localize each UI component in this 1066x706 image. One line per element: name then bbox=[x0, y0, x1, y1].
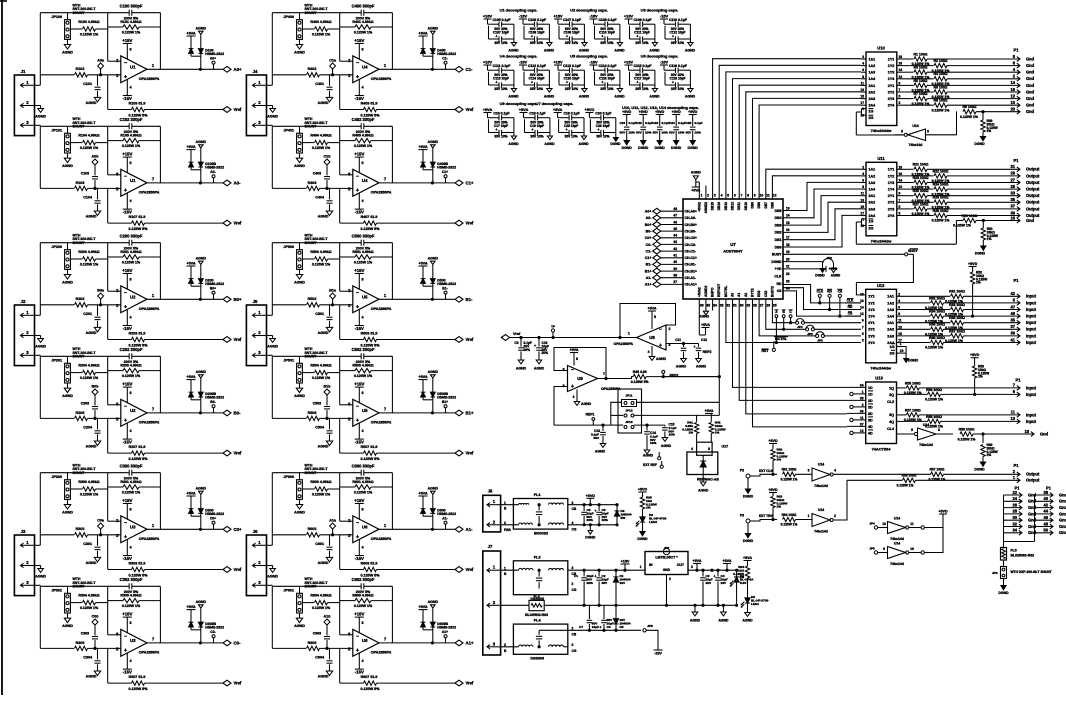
jumper JP201 bbox=[51, 347, 96, 383]
op-amp U6 bbox=[348, 629, 392, 656]
U7 left pins with input diamonds bbox=[645, 207, 697, 287]
svg-text:2: 2 bbox=[493, 600, 496, 605]
svg-text:AGND: AGND bbox=[62, 624, 73, 628]
svg-text:A1+: A1+ bbox=[442, 630, 448, 634]
svg-text:FL5: FL5 bbox=[1011, 549, 1017, 553]
resistor R103 61.9 to Vref bbox=[108, 75, 223, 118]
svg-text:Gnd: Gnd bbox=[1040, 431, 1049, 436]
connector J2 bbox=[14, 299, 34, 366]
svg-text:+5VA: +5VA bbox=[691, 189, 700, 193]
svg-text:BUSY: BUSY bbox=[772, 253, 782, 257]
svg-text:CH.B0+: CH.B0+ bbox=[685, 223, 697, 227]
resistor R401 4.99k feedback bbox=[352, 16, 373, 34]
svg-text:0.125W 1%: 0.125W 1% bbox=[122, 490, 141, 494]
svg-text:31: 31 bbox=[1010, 164, 1015, 169]
ground AGND J2 pin2 bbox=[35, 336, 47, 349]
svg-text:1Y3: 1Y3 bbox=[868, 308, 875, 312]
resistor R407 61.9 to Vref bbox=[340, 188, 455, 231]
svg-text:R2 100Ω: R2 100Ω bbox=[934, 59, 948, 63]
svg-text:R8 100Ω: R8 100Ω bbox=[934, 99, 948, 103]
svg-text:35V 10%: 35V 10% bbox=[530, 87, 543, 91]
row9 resistor R29 to P1 Gnd bbox=[953, 214, 1035, 228]
svg-text:J1: J1 bbox=[21, 69, 26, 74]
resistor R204 4.99k bbox=[70, 364, 107, 380]
svg-text:18: 18 bbox=[899, 165, 903, 169]
P1 ground pin block column 1 bbox=[1004, 486, 1037, 542]
svg-text:EXT CLK: EXT CLK bbox=[759, 469, 774, 473]
resistor R600 4.99k bbox=[302, 480, 339, 496]
ground AGND below JP400 bbox=[294, 39, 305, 54]
svg-text:0.125W 1%: 0.125W 1% bbox=[897, 484, 914, 488]
svg-text:+5VA: +5VA bbox=[186, 492, 196, 496]
svg-text:DB8: DB8 bbox=[757, 202, 761, 209]
svg-text:AGND: AGND bbox=[62, 281, 73, 285]
svg-text:AGND: AGND bbox=[35, 115, 46, 119]
svg-text:19: 19 bbox=[900, 349, 904, 353]
svg-text:18: 18 bbox=[786, 243, 790, 247]
svg-text:A1+: A1+ bbox=[645, 283, 652, 287]
svg-text:0.125W 1%: 0.125W 1% bbox=[354, 604, 373, 608]
svg-text:B0-: B0- bbox=[210, 400, 215, 404]
svg-text:6: 6 bbox=[734, 194, 736, 198]
jumper JP6 bbox=[992, 567, 1052, 596]
svg-text:+5VA: +5VA bbox=[648, 307, 657, 311]
node B1+ diamond bbox=[455, 410, 474, 416]
U7 pin 36 +5VA hook bbox=[699, 311, 710, 336]
svg-text:Input: Input bbox=[1026, 392, 1037, 397]
svg-text:HSMS-2812: HSMS-2812 bbox=[205, 282, 224, 286]
resistor R45 4.99k REF2 bbox=[631, 370, 720, 384]
resistor R402 input bbox=[272, 67, 353, 77]
U10 left pin wires bbox=[861, 59, 866, 105]
svg-text:+5VA: +5VA bbox=[418, 375, 428, 379]
svg-text:C0-: C0- bbox=[646, 243, 653, 247]
svg-text:C9: C9 bbox=[514, 341, 518, 345]
ground AGND J6 pin2 bbox=[267, 566, 279, 579]
svg-text:C103: C103 bbox=[81, 171, 89, 175]
svg-text:2Y4: 2Y4 bbox=[888, 214, 895, 218]
svg-text:16V: 16V bbox=[721, 581, 727, 585]
svg-text:+5VD: +5VD bbox=[672, 110, 682, 114]
svg-text:1: 1 bbox=[26, 310, 29, 315]
svg-text:B1-: B1- bbox=[466, 297, 474, 302]
svg-text:35V: 35V bbox=[602, 581, 608, 585]
svg-text:C501: C501 bbox=[315, 312, 324, 316]
svg-text:4D: 4D bbox=[868, 425, 873, 429]
svg-text:R45 4.99: R45 4.99 bbox=[633, 370, 647, 374]
svg-text:Input: Input bbox=[1026, 340, 1037, 345]
svg-text:32: 32 bbox=[1012, 521, 1017, 526]
svg-text:2: 2 bbox=[669, 327, 671, 331]
svg-text:HSMS-2812: HSMS-2812 bbox=[437, 166, 456, 170]
svg-text:6: 6 bbox=[348, 402, 351, 407]
svg-text:R58 100Ω: R58 100Ω bbox=[902, 474, 917, 478]
svg-text:C204: C204 bbox=[83, 425, 93, 429]
svg-text:DB14: DB14 bbox=[717, 202, 721, 210]
svg-text:AGND: AGND bbox=[428, 370, 439, 374]
svg-text:PSB: PSB bbox=[504, 528, 511, 532]
svg-text:1: 1 bbox=[258, 310, 261, 315]
svg-text:1Y3: 1Y3 bbox=[888, 71, 895, 75]
svg-text:7: 7 bbox=[152, 176, 155, 181]
svg-text:JP2: JP2 bbox=[807, 332, 813, 336]
wires JP block bbox=[611, 376, 721, 426]
svg-text:1Y2: 1Y2 bbox=[888, 174, 895, 178]
svg-text:1: 1 bbox=[701, 194, 703, 198]
svg-text:+15V: +15V bbox=[122, 38, 132, 43]
svg-text:74hc14d: 74hc14d bbox=[890, 562, 904, 566]
svg-text:OPA2350PA: OPA2350PA bbox=[371, 651, 392, 655]
decoupling caps group U1 bbox=[483, 8, 555, 53]
wire REF1 row junctions bbox=[611, 424, 665, 426]
resistor R507 61.9 to Vref bbox=[340, 418, 455, 461]
clamp diodes HSMS-2812 bbox=[418, 257, 456, 300]
svg-text:20%: 20% bbox=[542, 351, 549, 355]
capacitor C104 to ground bbox=[83, 188, 100, 218]
node REF2 flag bbox=[703, 350, 712, 354]
capacitor C5 C6 after FL1 bbox=[581, 505, 608, 525]
svg-text:JP5: JP5 bbox=[647, 624, 653, 628]
svg-text:1: 1 bbox=[628, 332, 630, 336]
svg-text:C500 330pF: C500 330pF bbox=[352, 233, 375, 238]
svg-text:1: 1 bbox=[384, 293, 387, 298]
svg-text:DGND: DGND bbox=[975, 252, 986, 256]
capacitor C23 decoupling bbox=[652, 110, 669, 150]
capacitor C202 330pF bbox=[120, 347, 143, 359]
IC U11 74HC244 bbox=[860, 156, 902, 244]
svg-text:AGND: AGND bbox=[196, 27, 207, 31]
svg-text:13: 13 bbox=[860, 198, 864, 202]
resistor R303 61.9 to Vref bbox=[108, 535, 223, 578]
svg-text:4: 4 bbox=[129, 86, 132, 90]
svg-text:4: 4 bbox=[691, 447, 693, 451]
svg-text:0.125W 1%: 0.125W 1% bbox=[80, 262, 99, 266]
svg-text:OPA2350PA: OPA2350PA bbox=[139, 191, 160, 195]
svg-text:6: 6 bbox=[348, 632, 351, 637]
jumper JP400 bbox=[283, 4, 328, 40]
svg-text:U11: U11 bbox=[877, 156, 885, 161]
svg-text:1A1: 1A1 bbox=[869, 57, 876, 61]
wire output C0+ bbox=[147, 528, 223, 530]
svg-text:48: 48 bbox=[673, 207, 677, 211]
wire output A1- bbox=[379, 528, 455, 530]
svg-text:DGND: DGND bbox=[974, 142, 985, 146]
node flag B1b bbox=[313, 384, 331, 419]
svg-text:JP5: JP5 bbox=[869, 547, 875, 551]
test point C0- bbox=[210, 630, 215, 643]
svg-text:AGND: AGND bbox=[318, 561, 329, 565]
svg-text:4: 4 bbox=[129, 316, 132, 320]
power +5VD flag at FL1 bbox=[586, 494, 596, 506]
svg-text:35V 10%: 35V 10% bbox=[596, 134, 609, 138]
U7 +VD wire bbox=[783, 266, 838, 272]
svg-text:AGND: AGND bbox=[656, 357, 667, 361]
op-amp U1 bbox=[116, 56, 160, 83]
svg-text:1D: 1D bbox=[868, 392, 873, 396]
svg-text:-15V: -15V bbox=[519, 60, 528, 65]
svg-text:4: 4 bbox=[361, 429, 364, 433]
capacitor C15 bbox=[661, 423, 677, 449]
svg-text:+: + bbox=[124, 75, 127, 81]
svg-text:8: 8 bbox=[361, 391, 363, 395]
capacitor C9 on Vref bbox=[514, 336, 532, 370]
svg-text:+: + bbox=[124, 648, 127, 654]
resistor R100 4.99k bbox=[70, 20, 107, 36]
svg-text:0.125W 1%: 0.125W 1% bbox=[80, 492, 99, 496]
resistor R206 input bbox=[40, 411, 121, 421]
svg-text:74hc14d: 74hc14d bbox=[890, 537, 904, 541]
inverter U14d EXT TRG bbox=[808, 480, 847, 533]
svg-text:C602 330pF: C602 330pF bbox=[352, 577, 375, 582]
svg-text:11: 11 bbox=[898, 319, 902, 323]
svg-text:C1-: C1- bbox=[442, 57, 447, 61]
svg-text:8: 8 bbox=[129, 508, 131, 512]
svg-text:WTH DXP-100-08-T SHUNT: WTH DXP-100-08-T SHUNT bbox=[1011, 570, 1052, 574]
capacitor C604 to ground bbox=[315, 648, 332, 678]
svg-text:1: 1 bbox=[808, 514, 810, 518]
wire 2Y2 row from pin 26 bbox=[766, 311, 861, 330]
wire +15V rail to regulator bbox=[568, 569, 645, 571]
svg-text:C0+: C0+ bbox=[210, 517, 216, 521]
svg-text:DGND: DGND bbox=[743, 495, 754, 499]
svg-text:C105 0.1µF: C105 0.1µF bbox=[492, 18, 510, 22]
svg-text:AGND2: AGND2 bbox=[704, 285, 708, 297]
svg-text:12: 12 bbox=[899, 185, 903, 189]
ground AGND J3 pin2 bbox=[35, 566, 47, 579]
svg-text:C601: C601 bbox=[315, 542, 324, 546]
svg-text:18: 18 bbox=[1024, 429, 1029, 434]
node Vref diamond bbox=[455, 107, 474, 113]
svg-text:DGND: DGND bbox=[688, 146, 699, 150]
svg-text:3: 3 bbox=[26, 120, 29, 125]
resistor R61 100 bbox=[781, 468, 812, 482]
svg-text:R503 61.9: R503 61.9 bbox=[361, 332, 378, 336]
svg-text:0.125W 1%: 0.125W 1% bbox=[929, 478, 946, 482]
svg-text:R7 100Ω: R7 100Ω bbox=[914, 92, 928, 96]
svg-text:35V 10%: 35V 10% bbox=[635, 41, 648, 45]
svg-text:AGND: AGND bbox=[86, 444, 97, 448]
svg-text:HSMS-2812: HSMS-2812 bbox=[437, 626, 456, 630]
svg-text:+: + bbox=[566, 128, 568, 132]
svg-text:AGND: AGND bbox=[649, 95, 660, 99]
op-amp U3 bbox=[116, 516, 160, 543]
capacitor C100 330pF bbox=[120, 3, 143, 15]
U9 + input wire to REF1 bbox=[554, 387, 611, 427]
capacitor C404 to ground bbox=[315, 188, 332, 218]
svg-text:9: 9 bbox=[1013, 389, 1016, 394]
clamp diodes HSMS-2812 bbox=[418, 600, 456, 643]
svg-text:6: 6 bbox=[938, 428, 940, 432]
svg-text:1A4: 1A4 bbox=[869, 77, 877, 81]
svg-text:R58 100Ω: R58 100Ω bbox=[926, 415, 942, 419]
svg-text:0.125W 1%: 0.125W 1% bbox=[925, 398, 943, 402]
svg-text:CH.C1-: CH.C1- bbox=[685, 249, 697, 253]
svg-text:49: 49 bbox=[1010, 311, 1015, 316]
wire J6 pin3 rail bbox=[267, 585, 340, 648]
svg-text:R100 4.99kΩ: R100 4.99kΩ bbox=[78, 20, 99, 24]
svg-text:AGND: AGND bbox=[614, 95, 625, 99]
svg-text:AGND: AGND bbox=[35, 575, 46, 579]
svg-text:7: 7 bbox=[152, 406, 155, 411]
diode D5 on -15V bbox=[613, 605, 630, 630]
svg-text:0.125W 1%: 0.125W 1% bbox=[312, 146, 331, 150]
svg-text:0.1µF: 0.1µF bbox=[695, 121, 703, 125]
connector P3 EXT TRG bbox=[740, 514, 777, 544]
svg-text:0.125W 1%: 0.125W 1% bbox=[312, 492, 331, 496]
resistor R203 61.9 to Vref bbox=[108, 305, 223, 348]
svg-text:B1+: B1+ bbox=[645, 269, 652, 273]
jumper JP501 bbox=[283, 347, 328, 383]
svg-text:1: 1 bbox=[152, 293, 155, 298]
svg-text:18: 18 bbox=[899, 55, 903, 59]
svg-text:+: + bbox=[124, 535, 127, 541]
svg-text:34: 34 bbox=[860, 383, 864, 387]
svg-text:U1: U1 bbox=[130, 178, 136, 183]
capacitor C204 to ground bbox=[83, 418, 100, 448]
svg-text:R605 4.99kΩ: R605 4.99kΩ bbox=[352, 594, 373, 598]
svg-text:2A2: 2A2 bbox=[869, 201, 876, 205]
svg-text:Output: Output bbox=[1026, 478, 1040, 483]
svg-text:CG: CG bbox=[572, 528, 577, 532]
svg-text:U8: U8 bbox=[649, 335, 655, 340]
svg-text:14: 14 bbox=[1010, 80, 1015, 85]
clamp diodes HSMS-2812 bbox=[186, 487, 224, 530]
wire +5VA output rail bbox=[688, 569, 737, 571]
node CLK RD CS test points bbox=[816, 289, 843, 297]
power +15V U3 bbox=[122, 498, 132, 519]
svg-text:C1+: C1+ bbox=[645, 256, 652, 260]
svg-text:+: + bbox=[672, 81, 674, 85]
svg-text:3: 3 bbox=[691, 565, 693, 569]
svg-text:+5VA: +5VA bbox=[418, 32, 428, 36]
svg-text:C116 0.1µF: C116 0.1µF bbox=[669, 64, 687, 68]
clamp diodes HSMS-2812 bbox=[186, 257, 224, 300]
node Vref diamond bbox=[223, 220, 242, 226]
svg-text:11: 11 bbox=[766, 194, 770, 198]
svg-text:50V: 50V bbox=[686, 131, 692, 135]
svg-text:CLK: CLK bbox=[816, 290, 823, 294]
svg-text:4: 4 bbox=[361, 86, 364, 90]
svg-text:R600 4.99kΩ: R600 4.99kΩ bbox=[310, 480, 331, 484]
svg-text:74hc14d: 74hc14d bbox=[814, 530, 828, 534]
svg-text:A0a: A0a bbox=[97, 58, 105, 62]
svg-text:0.125W 5%: 0.125W 5% bbox=[361, 227, 381, 231]
node flag B1a bbox=[329, 288, 337, 306]
svg-text:Gnd: Gnd bbox=[1059, 524, 1066, 529]
svg-text:37: 37 bbox=[1010, 324, 1015, 329]
svg-text:RST: RST bbox=[762, 349, 770, 353]
svg-text:R9 100Ω: R9 100Ω bbox=[963, 105, 977, 109]
svg-text:Gnd: Gnd bbox=[1026, 103, 1035, 108]
capacitor C302 330pF bbox=[120, 577, 143, 589]
svg-text:U14: U14 bbox=[923, 423, 929, 427]
svg-text:SHUNT: SHUNT bbox=[305, 471, 318, 475]
svg-text:EXT TRG: EXT TRG bbox=[759, 514, 774, 518]
resistor R57 output row2 bbox=[929, 463, 1040, 482]
svg-text:R31 100Ω: R31 100Ω bbox=[949, 290, 965, 294]
jumper JP2 bbox=[806, 325, 815, 336]
resistor R105 4.99k feedback bbox=[120, 130, 141, 148]
svg-text:1: 1 bbox=[862, 390, 864, 394]
node BUSY wire bbox=[783, 249, 918, 256]
svg-text:4D: 4D bbox=[868, 431, 873, 435]
svg-text:A0+: A0+ bbox=[645, 210, 652, 214]
svg-text:1: 1 bbox=[640, 565, 642, 569]
svg-text:10%: 10% bbox=[678, 131, 684, 135]
svg-text:31: 31 bbox=[733, 304, 737, 308]
svg-text:RD: RD bbox=[777, 282, 782, 286]
power +15V U3 bbox=[122, 612, 132, 633]
svg-text:Vref: Vref bbox=[234, 107, 242, 112]
U13 left input circles bbox=[847, 387, 866, 434]
svg-text:AGND: AGND bbox=[508, 95, 519, 99]
U7 pin 35 AGND bbox=[699, 311, 710, 319]
svg-text:R402: R402 bbox=[308, 67, 317, 71]
diode D1 input bbox=[613, 570, 630, 605]
svg-text:CB: CB bbox=[572, 507, 577, 511]
svg-text:23: 23 bbox=[786, 279, 790, 283]
svg-text:JP300: JP300 bbox=[51, 475, 62, 479]
test point C1+ bbox=[442, 170, 448, 183]
svg-text:R25 100Ω: R25 100Ω bbox=[913, 189, 929, 193]
svg-text:AGND: AGND bbox=[579, 49, 590, 53]
svg-text:40: 40 bbox=[673, 260, 677, 264]
wire J2 pin3 rail bbox=[35, 355, 108, 418]
resistor R304 4.99k bbox=[70, 594, 107, 610]
svg-text:P1: P1 bbox=[1013, 278, 1019, 283]
power -15V U3 bbox=[123, 540, 133, 562]
svg-text:0.125W 5%: 0.125W 5% bbox=[361, 687, 381, 691]
svg-text:P1: P1 bbox=[1013, 463, 1019, 468]
svg-text:12: 12 bbox=[773, 194, 777, 198]
svg-text:2G: 2G bbox=[869, 226, 874, 230]
power -15V U3 bbox=[123, 653, 133, 675]
svg-text:13: 13 bbox=[860, 88, 864, 92]
svg-text:AGND2: AGND2 bbox=[704, 202, 708, 214]
svg-text:+5VA: +5VA bbox=[723, 559, 732, 563]
svg-text:12: 12 bbox=[860, 429, 864, 433]
svg-text:2Y3: 2Y3 bbox=[888, 207, 895, 211]
svg-text:3: 3 bbox=[899, 212, 901, 216]
svg-text:0.125W 1%: 0.125W 1% bbox=[953, 224, 971, 228]
svg-text:4: 4 bbox=[361, 199, 364, 203]
jumper JP100 bbox=[51, 4, 96, 40]
svg-text:CS: CS bbox=[777, 289, 782, 293]
svg-text:41: 41 bbox=[1010, 337, 1015, 342]
svg-text:FL4: FL4 bbox=[534, 618, 542, 623]
svg-text:2: 2 bbox=[116, 518, 119, 523]
svg-text:28: 28 bbox=[1012, 509, 1017, 514]
svg-text:BL02RN2-R62: BL02RN2-R62 bbox=[525, 613, 548, 617]
svg-text:+15V: +15V bbox=[354, 498, 364, 503]
resistor R406 input bbox=[272, 181, 353, 191]
resistor R403 61.9 to Vref bbox=[340, 75, 455, 118]
svg-text:SHUNT: SHUNT bbox=[73, 355, 86, 359]
svg-text:16: 16 bbox=[786, 228, 790, 232]
svg-text:Vref: Vref bbox=[234, 451, 242, 456]
svg-text:42: 42 bbox=[673, 247, 677, 251]
svg-text:A1b: A1b bbox=[324, 614, 332, 618]
svg-text:+15V: +15V bbox=[354, 612, 364, 617]
svg-text:0.125W 1%: 0.125W 1% bbox=[80, 146, 99, 150]
svg-text:C504: C504 bbox=[315, 425, 325, 429]
svg-text:15: 15 bbox=[860, 95, 864, 99]
svg-text:P1: P1 bbox=[1015, 378, 1021, 383]
svg-text:Output: Output bbox=[1026, 193, 1040, 198]
svg-text:16: 16 bbox=[1010, 215, 1015, 220]
svg-text:10%: 10% bbox=[645, 131, 651, 135]
svg-text:+5VD: +5VD bbox=[638, 488, 648, 492]
